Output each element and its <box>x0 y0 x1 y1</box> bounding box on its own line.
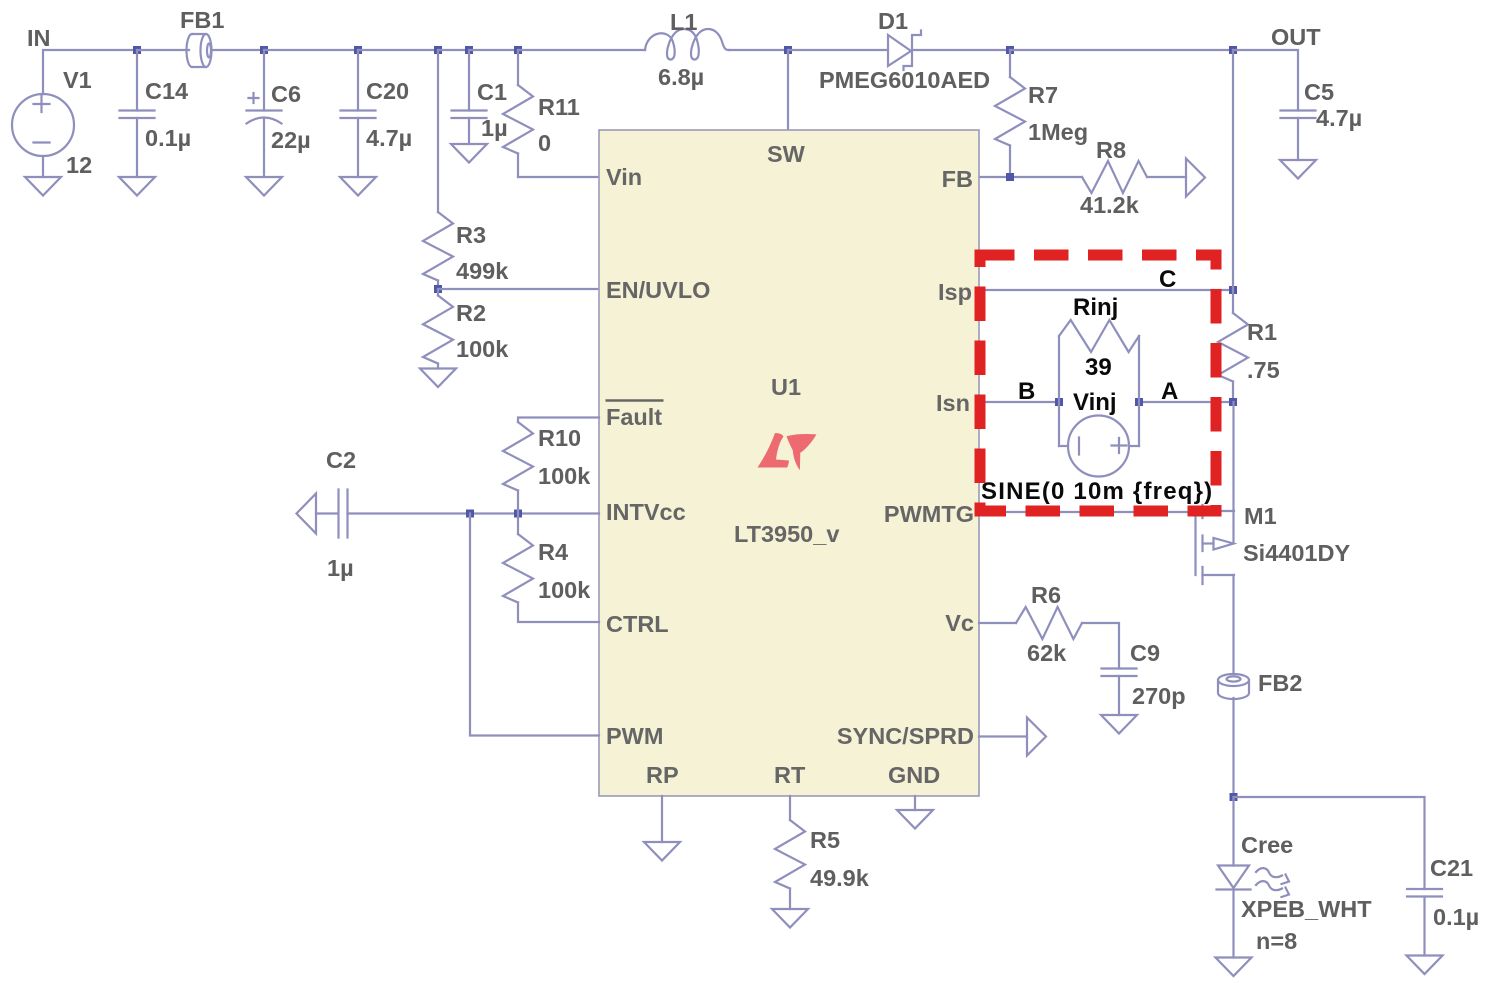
U1 value LT3950_v <box>734 521 839 547</box>
svg-text:22µ: 22µ <box>271 127 311 153</box>
ground below C5 <box>1280 160 1316 179</box>
resistor R1 <box>1218 290 1248 402</box>
ground below C6 <box>246 177 282 196</box>
wire R7 tap to OUT tap <box>1010 49 1233 51</box>
pin PWM label <box>606 723 663 749</box>
wire Rinj left stub <box>1058 336 1060 446</box>
junction R7 tap <box>1006 46 1014 54</box>
LED light arrows <box>1256 868 1289 897</box>
wire Isp to C node <box>979 289 1233 291</box>
svg-text:R7: R7 <box>1028 82 1058 108</box>
wire M1 source lead <box>1232 402 1234 544</box>
ground below RP <box>644 842 680 861</box>
junction node A <box>1135 398 1143 406</box>
svg-text:EN/UVLO: EN/UVLO <box>606 277 710 303</box>
ground below V1 <box>25 177 61 196</box>
svg-text:0: 0 <box>538 130 551 156</box>
svg-text:R8: R8 <box>1096 137 1126 163</box>
svg-text:41.2k: 41.2k <box>1080 192 1140 218</box>
wire FB1 to C6 tap <box>212 49 264 51</box>
C1 labels <box>477 79 508 141</box>
junction node B <box>1055 398 1063 406</box>
junction R1 bottom <box>1229 398 1237 406</box>
pin FB label <box>942 166 973 192</box>
svg-text:1µ: 1µ <box>327 555 354 581</box>
wire R6 to C9 <box>1082 623 1119 669</box>
R3 labels <box>456 222 509 284</box>
node OUT label <box>1271 24 1321 50</box>
svg-text:12: 12 <box>66 152 92 178</box>
net flag C2 left <box>297 494 317 534</box>
svg-text:RT: RT <box>774 762 806 788</box>
transistor M1 pmos <box>1203 505 1235 584</box>
C6 labels <box>271 81 311 153</box>
wire RT to R5 <box>789 796 791 820</box>
R2 labels <box>456 300 509 362</box>
svg-text:C21: C21 <box>1430 855 1473 881</box>
wire Isn line right <box>1139 401 1233 403</box>
svg-text:SINE(0 10m {freq}): SINE(0 10m {freq}) <box>981 478 1213 505</box>
wire OUT drop to C <box>1232 50 1234 290</box>
svg-text:C2: C2 <box>326 447 356 473</box>
svg-text:1µ: 1µ <box>481 115 508 141</box>
junction LED tap <box>1230 793 1238 801</box>
Rinj label <box>1073 294 1118 321</box>
pin RP label <box>646 762 679 788</box>
capacitor C20 <box>341 50 376 177</box>
wire R11 tap to L1 <box>518 49 645 51</box>
wire flag to C2 <box>316 512 338 514</box>
LT logo <box>758 433 817 470</box>
FB2 label <box>1258 670 1302 696</box>
capacitor C5 <box>1281 111 1316 161</box>
capacitor C6 polarized <box>247 50 282 177</box>
svg-text:L1: L1 <box>670 9 697 35</box>
svg-text:U1: U1 <box>771 374 801 400</box>
resistor R3 <box>423 212 453 289</box>
capacitor C14 <box>120 50 155 177</box>
L1 labels <box>658 9 704 90</box>
junction C20 tap <box>354 46 362 54</box>
junction OUT tap <box>1229 46 1237 54</box>
pin Vc label <box>945 610 974 636</box>
resistor R2 <box>423 289 453 369</box>
V1 labels <box>63 67 92 178</box>
svg-text:270p: 270p <box>1132 683 1186 709</box>
pin EN/UVLO label <box>606 277 710 303</box>
svg-text:499k: 499k <box>456 258 509 284</box>
pin SW label <box>767 141 806 167</box>
wire divider to EN/UVLO pin <box>438 288 599 290</box>
op-amp U1 LT3950 block <box>599 130 979 796</box>
svg-text:GND: GND <box>888 762 940 788</box>
wire L1 to SW tap <box>729 49 788 51</box>
wire R11 to Vin pin <box>518 176 599 178</box>
wire V1 to ground <box>42 156 44 177</box>
svg-text:C9: C9 <box>1130 640 1160 666</box>
M1 labels <box>1243 503 1350 566</box>
C20 labels <box>366 78 412 151</box>
resistor R5 <box>775 820 805 909</box>
junction C14 tap <box>133 46 141 54</box>
pin GND label <box>888 762 940 788</box>
C21 labels <box>1430 855 1479 930</box>
svg-text:Fault: Fault <box>606 404 662 430</box>
svg-text:OUT: OUT <box>1271 24 1321 50</box>
ground below LED <box>1216 958 1252 977</box>
U1 designator <box>771 374 801 400</box>
wire M1 drain to FB2 <box>1232 575 1234 674</box>
R5 labels <box>810 827 870 891</box>
Rinj value <box>1085 354 1112 381</box>
svg-text:6.8µ: 6.8µ <box>658 64 704 90</box>
capacitor C1 <box>452 50 487 144</box>
R11 labels <box>538 94 580 156</box>
R1 labels <box>1247 319 1280 383</box>
svg-text:Isn: Isn <box>936 390 970 416</box>
svg-text:B: B <box>1018 378 1035 405</box>
junction C1 tap <box>465 46 473 54</box>
wire PWM drop <box>470 514 599 736</box>
SINE annotation <box>981 478 1213 505</box>
pin PWMTG label <box>884 501 974 527</box>
svg-text:100k: 100k <box>456 336 509 362</box>
capacitor C9 <box>1102 669 1137 716</box>
svg-text:D1: D1 <box>878 8 908 34</box>
svg-text:n=8: n=8 <box>1256 928 1297 954</box>
schottky diode D1 <box>888 31 921 71</box>
svg-text:4.7µ: 4.7µ <box>1316 105 1362 131</box>
svg-text:.75: .75 <box>1247 357 1280 383</box>
svg-text:Vc: Vc <box>945 610 974 636</box>
wire SYNC/SPRD to flag <box>979 735 1027 737</box>
junction R11 tap <box>514 46 522 54</box>
C9 labels <box>1130 640 1186 709</box>
FB1 label <box>180 7 224 33</box>
wire rail to FB1 <box>137 49 189 51</box>
junction SW tap <box>784 46 792 54</box>
svg-text:V1: V1 <box>63 67 92 93</box>
wire C1 tap to R11 tap <box>469 49 518 51</box>
svg-text:4.7µ: 4.7µ <box>366 125 412 151</box>
wire C20 tap to R3 tap <box>358 49 438 51</box>
svg-text:C6: C6 <box>271 81 301 107</box>
svg-text:C1: C1 <box>477 79 507 105</box>
junction FB node <box>1006 173 1014 181</box>
wire PWMTG to gate <box>979 512 1196 575</box>
red dashed annotation box <box>980 255 1216 511</box>
node IN label <box>27 25 51 51</box>
svg-text:39: 39 <box>1085 354 1112 381</box>
pin SYNC/SPRD label <box>837 723 974 749</box>
R4 labels <box>538 539 591 603</box>
svg-text:XPEB_WHT: XPEB_WHT <box>1241 896 1372 922</box>
svg-text:Vin: Vin <box>606 164 642 190</box>
wire Vc pin to R6 <box>979 622 1016 624</box>
svg-text:62k: 62k <box>1027 640 1067 666</box>
svg-text:R2: R2 <box>456 300 486 326</box>
junction EN divider <box>434 285 442 293</box>
svg-text:FB1: FB1 <box>180 7 224 33</box>
svg-text:49.9k: 49.9k <box>810 865 870 891</box>
junction R10/R4 tap <box>514 510 522 518</box>
wire Fault stub <box>518 418 599 423</box>
wire Isn line left <box>979 401 1059 403</box>
svg-text:FB: FB <box>942 166 973 192</box>
ground below C21 <box>1407 956 1443 975</box>
ground below C14 <box>119 177 155 196</box>
svg-text:M1: M1 <box>1244 503 1277 529</box>
ferrite bead FB2 <box>1218 674 1249 699</box>
C2 labels <box>326 447 356 581</box>
pin Vin label <box>606 164 642 190</box>
svg-text:RP: RP <box>646 762 679 788</box>
junction C6 tap <box>260 46 268 54</box>
svg-text:INTVcc: INTVcc <box>606 499 686 525</box>
wire FB pin to R8 <box>979 176 1082 178</box>
C14 labels <box>145 78 191 151</box>
wire GND pin stub <box>914 796 916 810</box>
ground below C20 <box>340 177 376 196</box>
svg-text:C: C <box>1159 266 1176 293</box>
node B label <box>1018 378 1035 405</box>
wire R8 to flag <box>1147 176 1186 178</box>
svg-text:A: A <box>1161 378 1178 405</box>
resistor Rinj <box>1059 320 1139 352</box>
svg-text:R1: R1 <box>1247 319 1277 345</box>
svg-text:Cree: Cree <box>1241 832 1293 858</box>
junction PWM tap <box>466 510 474 518</box>
ground below C1 <box>451 144 487 163</box>
svg-text:C14: C14 <box>145 78 188 104</box>
svg-text:FB2: FB2 <box>1258 670 1302 696</box>
junction R3 tap <box>434 46 442 54</box>
svg-text:C20: C20 <box>366 78 409 104</box>
wire R3 tap to C1 tap <box>438 49 469 51</box>
LED D2 Cree <box>1217 797 1251 958</box>
pin INTVcc label <box>606 499 686 525</box>
resistor R8 <box>1082 161 1147 193</box>
capacitor C21 <box>1407 889 1442 956</box>
node A label <box>1161 378 1178 405</box>
svg-text:R3: R3 <box>456 222 486 248</box>
wire C6 tap to C20 tap <box>264 49 358 51</box>
resistor R10 <box>503 422 533 514</box>
junction node C <box>1229 286 1237 294</box>
wire RP to ground <box>661 796 663 842</box>
pin RT label <box>774 762 806 788</box>
svg-text:SYNC/SPRD: SYNC/SPRD <box>837 723 974 749</box>
svg-text:Rinj: Rinj <box>1073 294 1118 321</box>
wire rail down to R3 <box>437 50 439 212</box>
R7 labels <box>1028 82 1088 145</box>
svg-text:Vinj: Vinj <box>1073 389 1117 416</box>
LED labels <box>1241 832 1372 954</box>
voltage source Vinj <box>1059 416 1139 477</box>
ground below R5 <box>772 909 808 928</box>
capacitor C2 <box>339 490 348 538</box>
wire SW tap to D1 <box>788 49 888 51</box>
ground below C9 <box>1101 715 1137 734</box>
svg-text:R11: R11 <box>538 94 580 120</box>
R10 labels <box>538 425 591 489</box>
svg-text:R5: R5 <box>810 827 840 853</box>
voltage source V1 <box>12 94 74 156</box>
wire C2 to INTVcc pin <box>348 512 600 514</box>
wire top rail IN corner <box>43 50 137 94</box>
svg-text:PWM: PWM <box>606 723 663 749</box>
wire tap to C21 <box>1234 797 1425 889</box>
resistor R4 <box>503 514 599 623</box>
resistor R6 <box>1016 607 1082 639</box>
R8 labels <box>1080 137 1140 218</box>
resistor R7 <box>995 50 1025 177</box>
net flag SYNC/SPRD <box>1027 718 1046 756</box>
svg-text:Si4401DY: Si4401DY <box>1243 540 1350 566</box>
D1 labels <box>819 8 990 93</box>
svg-text:R4: R4 <box>538 539 568 565</box>
svg-text:Isp: Isp <box>938 279 972 305</box>
Vinj label <box>1073 389 1117 416</box>
pin Isn label <box>936 390 970 416</box>
svg-text:C5: C5 <box>1304 79 1334 105</box>
wire FB2 to LED tap <box>1232 698 1234 797</box>
svg-text:R10: R10 <box>538 425 581 451</box>
svg-text:LT3950_v: LT3950_v <box>734 521 839 547</box>
pin Fault label <box>606 401 664 431</box>
svg-text:PWMTG: PWMTG <box>884 501 974 527</box>
svg-text:PMEG6010AED: PMEG6010AED <box>819 67 990 93</box>
wire D1 to R7 tap <box>912 49 1010 51</box>
ground below R2 <box>420 369 456 388</box>
svg-text:100k: 100k <box>538 577 591 603</box>
pin CTRL label <box>606 611 669 637</box>
ground below GND pin <box>897 810 933 829</box>
wire Rinj right stub <box>1138 336 1140 446</box>
svg-text:1Meg: 1Meg <box>1028 119 1088 145</box>
ferrite bead FB1 <box>187 34 212 67</box>
net flag FB divider <box>1186 159 1205 197</box>
svg-text:SW: SW <box>767 141 806 167</box>
node C label <box>1159 266 1176 293</box>
svg-text:IN: IN <box>27 25 51 51</box>
svg-text:0.1µ: 0.1µ <box>1433 904 1479 930</box>
svg-text:R6: R6 <box>1031 582 1061 608</box>
svg-text:100k: 100k <box>538 463 591 489</box>
wire SW pin drop <box>787 50 789 130</box>
resistor R11 <box>503 50 533 177</box>
inductor L1 <box>645 29 729 60</box>
R6 labels <box>1027 582 1067 666</box>
svg-text:0.1µ: 0.1µ <box>145 125 191 151</box>
pin Isp label <box>938 279 972 305</box>
wire OUT corner to C5 <box>1233 50 1298 111</box>
C5 labels <box>1304 79 1362 131</box>
svg-text:CTRL: CTRL <box>606 611 669 637</box>
